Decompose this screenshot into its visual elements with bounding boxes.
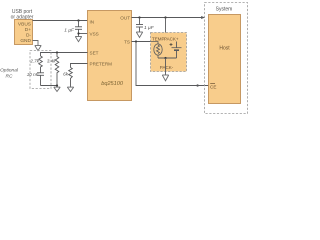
svg-text:System: System xyxy=(216,7,233,13)
wire SET pin to RC network xyxy=(41,53,88,57)
node: junction pack bottom / PACK- xyxy=(164,57,166,59)
wire PRETERM pin to R3 xyxy=(71,64,88,68)
arrowhead: OUT wire into system xyxy=(201,16,205,19)
annotation: Optional RC xyxy=(0,68,19,80)
plus sign of BT1 xyxy=(170,43,173,46)
capacitor C3 1uF (output) xyxy=(136,18,143,33)
svg-text:VSS: VSS xyxy=(90,31,99,36)
svg-text:PACK-: PACK- xyxy=(160,65,174,70)
ground (C3) xyxy=(136,32,142,38)
node: junction TS / CE xyxy=(135,40,137,42)
svg-text:PACK+: PACK+ xyxy=(164,37,179,42)
svg-text:10 nF: 10 nF xyxy=(27,72,40,77)
svg-text:GND: GND xyxy=(20,38,31,44)
wire TS to host CE xyxy=(136,42,209,86)
ground (R3) xyxy=(67,87,73,91)
wire: RC bottom rail to R2 bottom xyxy=(41,85,58,87)
ground (USB GND) xyxy=(35,46,41,51)
svg-text:1 µF: 1 µF xyxy=(64,27,75,33)
resistor R1 2.7k xyxy=(39,56,43,73)
svg-text:VBUS: VBUS xyxy=(18,22,31,28)
system dashed box xyxy=(205,3,248,114)
wire TS to pack TEMP xyxy=(132,41,151,43)
IC U1 bq25100 xyxy=(88,11,132,101)
wire PACK- to ground xyxy=(165,58,167,75)
svg-text:PRETERM: PRETERM xyxy=(90,61,113,66)
capacitor C1 1uF (input) xyxy=(75,21,82,37)
svg-text:OUT: OUT xyxy=(120,15,130,20)
svg-text:TS: TS xyxy=(124,39,130,44)
wire USB GND to ground xyxy=(33,41,39,46)
thermistor RT1 xyxy=(151,42,163,59)
svg-text:TEMP: TEMP xyxy=(152,37,165,42)
battery cell BT1 xyxy=(172,42,182,59)
svg-text:6k: 6k xyxy=(63,72,69,77)
dashed box: optional RC network xyxy=(30,51,51,89)
svg-text:1 µF: 1 µF xyxy=(144,25,155,31)
ground (input cap / VSS) xyxy=(75,37,81,42)
node: junction RC rail / R2 / ground xyxy=(56,84,58,86)
annotation: USB port or adapter xyxy=(11,9,34,21)
wire VSS pin to C1 ground node xyxy=(79,33,88,35)
USB connector J1 (VBUS / D+ / D- / GND) xyxy=(15,20,33,45)
capacitor C2 10nF xyxy=(37,73,44,86)
battery pack box (dashed) xyxy=(151,33,187,72)
svg-text:2.7k: 2.7k xyxy=(29,59,39,64)
svg-text:D+: D+ xyxy=(25,27,31,33)
svg-text:bq25100: bq25100 xyxy=(101,81,124,87)
node: junction OUT / C3 xyxy=(138,16,140,18)
arrowhead: CE wire into system xyxy=(197,84,201,87)
pack internal bottom wire xyxy=(158,57,177,59)
wire OUT to system xyxy=(132,17,205,19)
ground (PACK-) xyxy=(162,75,168,81)
host box xyxy=(209,15,241,104)
node: junction OUT / PACK+ xyxy=(164,16,166,18)
resistor R3 6k (PRE-TERM) xyxy=(69,68,73,88)
wire VBUS to IN xyxy=(33,20,88,22)
node: junction VSS / C1 / ground xyxy=(77,32,79,34)
svg-text:SET: SET xyxy=(90,50,99,55)
svg-text:Host: Host xyxy=(219,46,230,52)
svg-text:IN: IN xyxy=(90,19,95,24)
wire OUT to PACK+ xyxy=(165,18,167,35)
svg-text:D-: D- xyxy=(26,33,31,39)
resistor R2 3.4k (ISET) xyxy=(55,53,59,88)
ground (ISET network) xyxy=(54,87,60,91)
node: SET junction at R2 xyxy=(56,51,58,53)
svg-text:Optional: Optional xyxy=(0,68,19,74)
svg-text:CE: CE xyxy=(210,85,216,90)
svg-text:RC: RC xyxy=(6,73,13,79)
svg-text:3.4k: 3.4k xyxy=(47,59,56,64)
node: junction VBUS wire / C1 xyxy=(77,19,79,21)
